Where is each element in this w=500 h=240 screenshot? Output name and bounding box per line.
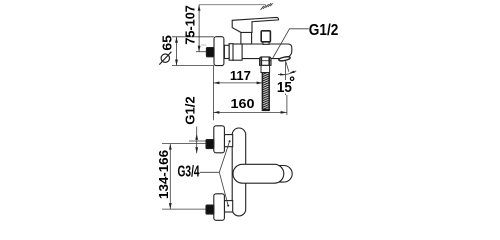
svg-text:75-107: 75-107 [183,5,198,45]
svg-text:134-166: 134-166 [156,150,171,199]
svg-text:G3/4: G3/4 [178,164,200,181]
svg-text:G1/2: G1/2 [182,96,197,125]
svg-text:160: 160 [231,96,255,111]
svg-text:G1/2: G1/2 [309,22,339,39]
svg-text:15: 15 [277,79,292,96]
svg-text:65: 65 [159,35,174,51]
svg-text:117: 117 [230,68,251,83]
